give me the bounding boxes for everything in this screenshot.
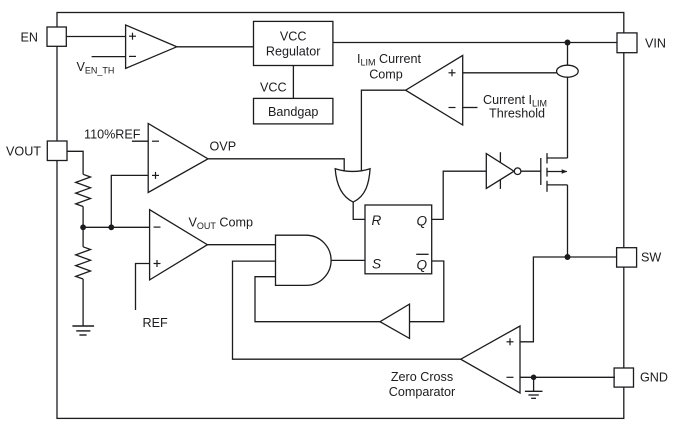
wire SW node to zero-cross + input xyxy=(520,257,568,342)
OR gate xyxy=(335,169,370,202)
svg-text:VIN: VIN xyxy=(645,37,666,51)
driver bubble xyxy=(514,168,521,175)
buffer delay xyxy=(380,304,410,338)
resistor R1 upper divider xyxy=(76,174,91,206)
svg-text:VEN_TH: VEN_TH xyxy=(77,60,115,76)
svg-text:S: S xyxy=(372,257,381,272)
svg-text:VOUT: VOUT xyxy=(6,144,41,158)
current sense element xyxy=(557,65,579,77)
svg-text:Threshold: Threshold xyxy=(489,106,545,120)
op-amp zero cross comparator xyxy=(461,326,520,393)
flip-flop RS latch xyxy=(365,205,432,274)
AND gate xyxy=(276,235,332,285)
node VIN junction xyxy=(565,40,571,46)
pin GND xyxy=(614,368,633,387)
wire node FB to VOUT comparator - input xyxy=(83,226,150,228)
pin VIN xyxy=(617,33,637,53)
op-amp OVP comparator xyxy=(148,124,208,193)
wire VCC Regulator to Bandgap xyxy=(292,66,294,99)
svg-text:OVP: OVP xyxy=(210,140,237,154)
op-amp EN comparator xyxy=(126,25,177,68)
wire R1 to node FB xyxy=(82,207,84,228)
wire Qbar output to delay buffer xyxy=(410,261,444,322)
svg-text:Zero Cross: Zero Cross xyxy=(391,370,453,384)
wire MOSFET source to SW node xyxy=(567,185,569,257)
wire VOUT pin to divider top xyxy=(67,151,83,174)
wire VEN_TH to comparator - input xyxy=(92,56,126,58)
wire AND output to S input xyxy=(331,259,365,261)
gate driver inverter xyxy=(486,154,514,189)
svg-text:VCC: VCC xyxy=(280,29,307,43)
svg-text:Bandgap: Bandgap xyxy=(268,105,318,119)
pin SW xyxy=(617,248,637,267)
wire Q output to gate driver xyxy=(432,171,487,219)
wire driver to MOSFET gate xyxy=(521,170,541,172)
pin VOUT xyxy=(47,141,67,161)
node SW junction xyxy=(565,254,571,260)
pin EN xyxy=(47,27,66,46)
svg-text:VCC: VCC xyxy=(260,81,287,95)
wire EN comparator output to VCC Regulator xyxy=(177,46,254,48)
block VCC Regulator xyxy=(254,21,333,65)
wire VIN node down to current sense xyxy=(567,43,569,66)
wire REF to VOUT comparator + input xyxy=(136,264,150,311)
wire VOUT comparator output to AND gate xyxy=(207,244,275,246)
wire ILIM comparator output to OR gate xyxy=(361,90,405,171)
wire OVP tap to OVP comparator + input xyxy=(111,175,148,227)
wire 110%REF to OVP comparator - input xyxy=(132,140,148,142)
wire node FB to R2 xyxy=(82,227,84,247)
resistor R2 lower divider xyxy=(76,247,91,279)
driver supply ticks xyxy=(499,152,501,162)
wire zero-cross feedback to AND input xyxy=(233,261,461,359)
svg-text:SW: SW xyxy=(641,251,661,265)
wire zero-cross - input to GND pin xyxy=(520,376,615,378)
wire SW node to SW pin xyxy=(568,256,617,258)
svg-text:EN: EN xyxy=(21,30,39,44)
op-amp ILIM current comparator xyxy=(406,55,463,125)
svg-text:ILIM Current: ILIM Current xyxy=(357,52,422,68)
wire OR gate output to R input xyxy=(353,202,365,219)
block Bandgap xyxy=(254,98,333,124)
transistor power MOSFET xyxy=(541,153,568,192)
svg-text:Comp: Comp xyxy=(369,68,403,82)
wire OVP output to OR gate xyxy=(208,159,344,172)
svg-text:Q: Q xyxy=(417,258,428,273)
ground zero-cross xyxy=(525,377,543,398)
svg-text:Comparator: Comparator xyxy=(389,385,456,399)
svg-text:VOUT Comp: VOUT Comp xyxy=(189,215,254,231)
wire R2 to ground xyxy=(82,279,84,326)
node zero-cross ground junction xyxy=(531,375,537,381)
wire buffer output to AND input xyxy=(255,277,380,322)
svg-text:Q: Q xyxy=(417,213,428,228)
wire VCC Regulator output to VIN node xyxy=(333,42,618,44)
wire current sense to MOSFET drain xyxy=(567,77,569,158)
IC boundary xyxy=(57,13,624,419)
svg-text:Regulator: Regulator xyxy=(266,45,321,59)
wire ILIM comparator + input to current sense xyxy=(463,72,557,74)
ground divider xyxy=(72,326,94,335)
wire ILIM comparator - input stub xyxy=(463,107,478,109)
node OVP tap junction xyxy=(108,224,114,230)
svg-text:110%REF: 110%REF xyxy=(84,127,141,141)
svg-text:R: R xyxy=(372,213,382,228)
op-amp VOUT comparator xyxy=(150,210,208,280)
svg-text:GND: GND xyxy=(640,371,668,385)
wire EN pin to comparator + input xyxy=(66,36,125,38)
node FB junction xyxy=(80,224,86,230)
svg-text:REF: REF xyxy=(143,316,168,330)
